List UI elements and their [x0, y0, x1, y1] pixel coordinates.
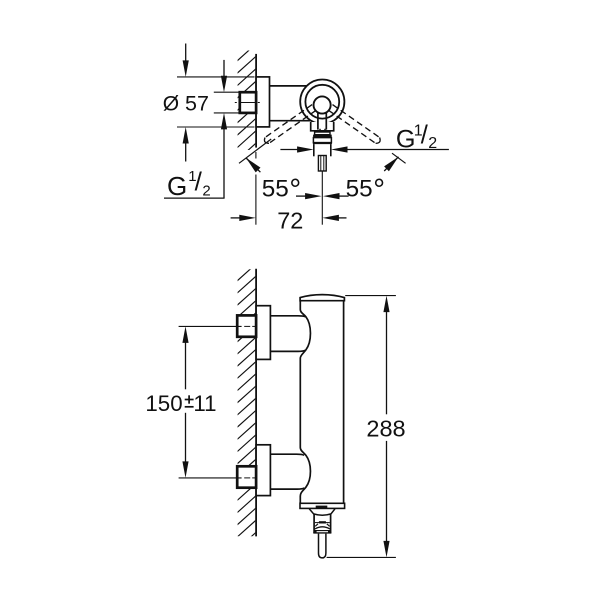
lower ring band — [313, 138, 331, 143]
lower escutcheon flange (side view) — [256, 445, 270, 496]
lower S-union cone — [270, 454, 304, 489]
outlet tube (top view) — [313, 144, 315, 156]
svg-text:°: ° — [373, 173, 385, 206]
dimension 150 extension line top / union centerline — [179, 325, 242, 327]
lever knob circle — [314, 96, 331, 113]
svg-text:57: 57 — [185, 92, 209, 116]
svg-text:G: G — [396, 126, 416, 154]
vertical centerline (top view) — [321, 171, 323, 224]
wall face extension line (dashed then solid) — [255, 152, 257, 159]
dimension Ø57 dimension line and arrows — [185, 44, 187, 63]
svg-text:150: 150 — [145, 391, 182, 416]
outlet transition (side view) — [309, 509, 335, 515]
dimension Ø57 extension lines — [177, 76, 255, 78]
pipe union nut (top view) — [240, 92, 256, 113]
valve body outer circle — [300, 80, 344, 124]
dimension 150 line and arrows — [185, 340, 187, 389]
union centerline (top view) — [235, 102, 237, 104]
lever swing dashed lines left — [265, 105, 312, 138]
black ring band — [313, 135, 332, 138]
lever tip notch — [320, 129, 326, 131]
svg-text:Ø: Ø — [163, 93, 179, 116]
upper S-union cone — [270, 316, 305, 352]
dimension G1/2 left dimension line and arrows — [223, 60, 225, 79]
svg-text:2: 2 — [202, 183, 210, 200]
svg-text:°: ° — [289, 173, 301, 206]
collar ring (top view) — [315, 132, 330, 135]
dimension 150 extension line bottom / union centerline — [179, 477, 242, 479]
bottom cap band (side view) — [300, 503, 345, 508]
check valve details — [315, 522, 330, 524]
faucet body (top view) — [270, 85, 309, 87]
55deg center arrows — [296, 195, 307, 197]
escutcheon flange (top view) — [256, 77, 269, 127]
dimension G1/2 right line and arrows — [280, 149, 298, 151]
hose connection nipple — [319, 534, 326, 558]
55deg left axis extension line — [239, 139, 271, 163]
svg-text:288: 288 — [366, 415, 405, 441]
svg-text:G: G — [167, 171, 187, 201]
dimension 288 extension lines — [345, 295, 396, 297]
svg-text:2: 2 — [428, 135, 437, 152]
lever stem (top view) — [317, 112, 319, 129]
wall face (top view) — [255, 54, 257, 148]
wall face (side view) — [255, 269, 257, 537]
lower union nut (side view) — [237, 466, 256, 487]
faucet body silhouette (side view) — [300, 295, 344, 301]
outlet nipple (top view) — [318, 156, 326, 172]
55deg right arrow — [384, 157, 398, 171]
cartridge housing (top view) — [311, 122, 334, 131]
55deg left arrow — [246, 158, 260, 172]
upper union nut (side view) — [237, 315, 256, 336]
valve inner circle — [305, 85, 339, 119]
svg-text:11: 11 — [193, 391, 216, 416]
svg-text:/: / — [195, 167, 203, 197]
svg-text:72: 72 — [277, 207, 303, 233]
55deg right axis extension line — [392, 153, 406, 163]
dimension 288 line and arrows — [386, 310, 388, 415]
lever swing dashed lines right — [329, 110, 376, 143]
dimension 72 arrows — [231, 217, 240, 219]
svg-text:55: 55 — [346, 175, 373, 202]
upper escutcheon flange (side view) — [256, 306, 270, 360]
svg-text:55: 55 — [262, 175, 289, 202]
dimension G1/2 left extension lines — [214, 91, 240, 93]
label G1/2 left — [164, 197, 225, 199]
outlet cylinder (side view) — [313, 514, 315, 534]
